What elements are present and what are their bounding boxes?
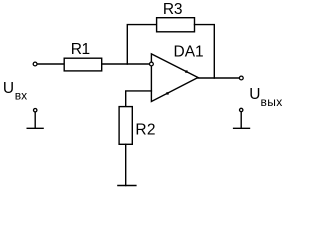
svg-text:R3: R3 — [163, 1, 182, 18]
Uвх reference pin terminal — [34, 109, 37, 129]
op-amp DA1 — [151, 54, 198, 102]
Uвых reference pin bar — [234, 127, 250, 129]
Uвх reference pin bar — [27, 127, 43, 129]
wire R1 to inverting input — [102, 63, 152, 65]
label DA1 — [174, 44, 204, 61]
resistor R1 — [64, 58, 102, 71]
label Uвх — [3, 80, 27, 103]
ground bar (R2) — [118, 185, 136, 187]
svg-text:U: U — [3, 80, 14, 97]
resistor R3 — [157, 18, 195, 32]
resistor R2 — [119, 107, 132, 145]
svg-text:вх: вх — [15, 89, 27, 103]
label R1 — [71, 41, 90, 58]
Uвых reference pin terminal — [240, 108, 243, 128]
input terminal node (Uвх) — [33, 62, 37, 66]
wire output — [198, 77, 239, 79]
wire non-inverting input to R2 — [126, 91, 152, 107]
svg-text:вых: вых — [261, 95, 283, 109]
wire feedback branch up to R3 — [127, 25, 156, 64]
svg-text:R1: R1 — [71, 41, 90, 58]
output terminal node (Uвых) — [239, 76, 243, 80]
svg-text:DA1: DA1 — [174, 44, 204, 61]
wire input terminal to R1 — [38, 63, 65, 65]
wire R2 to ground — [125, 144, 127, 185]
label Uвых — [249, 86, 282, 109]
label R2 — [135, 122, 155, 139]
svg-text:R2: R2 — [135, 122, 155, 139]
label R3 — [163, 1, 182, 18]
wire R3 to output node — [195, 25, 215, 78]
svg-text:U: U — [249, 86, 260, 103]
inverting input pin circle — [150, 62, 154, 66]
